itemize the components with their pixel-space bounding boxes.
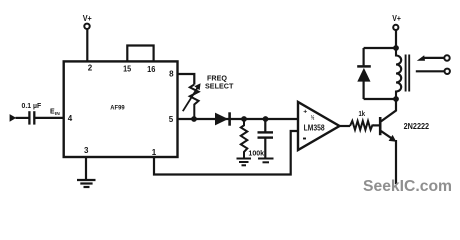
svg-text:4: 4	[68, 114, 73, 123]
svg-text:AF99: AF99	[110, 105, 125, 112]
V+ terminal circle	[84, 24, 89, 29]
capacitor C2 lower wire	[264, 138, 266, 158]
relay coil K1	[396, 48, 401, 99]
ground (pin 3)	[77, 180, 96, 187]
svg-text:3: 3	[84, 146, 89, 155]
V+ terminal circle (relay)	[393, 25, 398, 30]
relay contact top line	[424, 57, 445, 59]
wire pin 1 to op-amp inverting input	[154, 131, 298, 175]
relay core lines	[405, 55, 407, 92]
svg-text:5: 5	[169, 115, 174, 124]
wire diode branch lower	[363, 82, 365, 100]
Q1 emitter with arrow	[381, 131, 394, 140]
diode D2 flyback triangle	[357, 68, 370, 82]
svg-text:LM358: LM358	[304, 123, 325, 132]
wire pin 5 to op-amp non-inverting input	[178, 118, 299, 120]
svg-text:1: 1	[152, 148, 157, 157]
capacitor C2 plates	[258, 131, 274, 133]
diode D2 flyback cathode bar	[357, 65, 371, 68]
wire 1k to base	[373, 124, 380, 126]
wire pin 8 to rheostat	[178, 74, 195, 85]
svg-text:2: 2	[88, 64, 93, 73]
svg-text:16: 16	[147, 65, 156, 74]
svg-text:V+: V+	[83, 14, 93, 23]
relay contact bottom line	[416, 70, 445, 72]
capacitor C1 0.1uF plates	[28, 111, 30, 124]
wire diode branch upper	[363, 48, 365, 65]
op-amp U2 LM358 triangle	[298, 102, 340, 150]
node junction relay top	[393, 45, 399, 51]
svg-text:15: 15	[123, 65, 131, 74]
svg-text:+: +	[303, 108, 307, 115]
resistor R2 100k vertical zigzag	[241, 119, 248, 158]
relay contact armature arrow	[417, 55, 425, 61]
input arrow	[10, 114, 17, 122]
wire V+ to pin 2	[86, 29, 88, 62]
wire capacitor to pin 4	[34, 117, 64, 119]
diode D1 (series)	[215, 113, 228, 126]
node junction at 100k resistor	[241, 116, 247, 122]
wire input to capacitor	[16, 117, 29, 119]
wire relay bottom to diode branch	[364, 98, 396, 100]
Q1 collector	[381, 99, 396, 121]
ground (100k)	[237, 159, 252, 166]
svg-text:2N2222: 2N2222	[404, 122, 430, 131]
wire pin 3 to ground	[85, 157, 87, 180]
op-amp - sign	[303, 138, 306, 140]
wire relay top to diode branch	[364, 47, 396, 49]
op-amp IC U1 AF99 body	[64, 61, 178, 157]
ground (C2)	[258, 159, 274, 163]
svg-text:SELECT: SELECT	[205, 82, 234, 91]
wire op-amp output to 1k	[339, 125, 350, 127]
wire jumper pins 15-16	[127, 46, 153, 63]
node junction at capacitor	[263, 116, 269, 122]
resistor R3 1k zigzag	[350, 121, 374, 130]
svg-text:0.1 µF: 0.1 µF	[22, 103, 42, 110]
wire V+ to relay node	[395, 30, 397, 48]
wire emitter down	[395, 140, 397, 184]
transistor Q1 2N2222 base bar	[379, 117, 382, 135]
capacitor C2 wire from node	[264, 119, 266, 132]
svg-text:SeekIC.com: SeekIC.com	[363, 178, 452, 195]
svg-text:8: 8	[169, 69, 174, 78]
svg-text:½: ½	[311, 113, 315, 121]
relay contact top terminal	[444, 55, 449, 60]
svg-text:1k: 1k	[359, 109, 366, 118]
node junction relay bottom / collector	[393, 96, 399, 102]
relay contact bottom terminal	[445, 69, 450, 74]
rheostat arrow	[183, 88, 198, 112]
svg-text:V+: V+	[392, 14, 401, 23]
svg-text:100k: 100k	[248, 149, 264, 158]
node junction (rheostat/pin5)	[191, 116, 197, 122]
rheostat R1 FREQ SELECT zigzag	[190, 85, 199, 120]
